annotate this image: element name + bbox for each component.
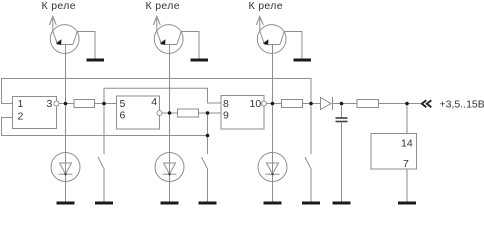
wire node3 feedback to gate1 pin 1 [2,79,312,104]
LED HL2 [155,153,184,182]
svg-text:7: 7 [403,158,409,170]
LED cathode junction 3 [271,173,273,175]
ground LED 1 [57,202,75,205]
wire collector 2 to common bar [181,32,199,59]
junction node 7 [309,102,313,106]
transistor VT1 [50,25,79,54]
wire collector 1 to common bar [77,32,95,59]
svg-text:10: 10 [250,98,262,110]
wire R3 to diode VD1 [303,103,321,105]
arrow to relay 3 [256,17,263,32]
gate DD1.2 pin labels [120,96,158,122]
svg-text:+3,5..15В: +3,5..15В [440,99,484,111]
junction node 4 [206,111,210,115]
junction node 3 [168,111,172,115]
wire collector 3 to common bar [284,32,302,59]
gate DD1.3 output bubble pin 10 [262,101,267,106]
wire node2 feedback to gate1 pin 2 [2,118,208,136]
junction node 5 [206,134,210,138]
junction node 2 [102,102,106,106]
capacitor C1 [336,118,348,122]
LED cathode junction 1 [64,173,66,175]
svg-text:4: 4 [151,96,157,108]
wire IC pin 7 to ground [406,169,408,202]
wire R2 to gate3 pin 9 [199,112,222,114]
common bar (chassis) 1 [87,59,105,62]
junction node 9 [405,102,409,106]
svg-text:1: 1 [18,98,24,110]
junction node 1 [64,102,68,106]
svg-text:К реле: К реле [146,0,180,12]
wire contact 3 to ground [310,168,312,202]
wire node1 to gate3 pin 8 [104,88,221,103]
wire supply node to IC pin 14 [406,104,408,134]
arrow to relay 1 [49,17,56,32]
wire contact 1 to ground [103,168,105,202]
wire base/anode vertical 3 [272,45,274,202]
diode VD1 [321,97,333,110]
ground contact 1 [95,202,113,205]
wire R4 to supply connector [379,103,421,105]
LED HL3 [258,153,287,182]
wire base/anode vertical 1 [65,45,67,202]
common bar (chassis) 2 [191,59,209,62]
gate DD1.3 body [221,96,264,130]
transistor VT2 [154,25,183,54]
relay contact K1 blade [98,157,104,168]
resistor R3 [282,100,303,108]
gate DD1.2 body [117,96,160,129]
junction node 6 [271,102,275,106]
relay contact K3 blade [305,157,311,168]
resistor R2 [178,109,199,117]
ground IC [398,202,416,205]
ground C1 [333,202,351,205]
resistor R1 [74,100,95,108]
IC power block DD1 [371,134,417,170]
junction node 8 [340,102,344,106]
LED HL1 [51,153,80,182]
wire R1 to gate2 pin 5 [95,103,117,105]
svg-text:6: 6 [120,110,126,122]
svg-text:3: 3 [47,98,53,110]
resistor R4 [357,100,379,108]
svg-text:8: 8 [223,98,229,110]
ground LED 2 [161,202,179,205]
wire C1 to ground [341,122,343,202]
svg-text:2: 2 [18,111,24,123]
ground contact 2 [199,202,217,205]
ground contact 3 [302,202,320,205]
svg-text:14: 14 [401,138,413,150]
wire gate2 output to R2 [162,112,178,114]
wire diode node to C1 [341,104,343,119]
svg-text:К реле: К реле [42,0,76,12]
svg-text:К реле: К реле [249,0,283,12]
svg-text:5: 5 [120,98,126,110]
wire contact 2 to ground [207,168,209,202]
common bar (chassis) 3 [294,59,312,62]
supply connector chevrons [422,100,432,107]
ground LED 3 [264,202,282,205]
gate DD1.3 pin labels [223,98,261,122]
wire VD1 to R4 [333,103,358,105]
gate DD1.2 output bubble pin 4 [157,111,162,116]
wire gate1 output to R1 [59,103,74,105]
wire base/anode vertical 2 [169,45,171,202]
wire node1 down to contact [103,104,105,155]
gate DD1.1 body [13,97,57,129]
gate DD1.1 output bubble pin 3 [54,101,59,106]
gate DD1.1 pin labels [18,98,53,123]
arrow to relay 2 [153,17,160,32]
relay contact K2 blade [202,157,208,168]
wire gate3 output to R3 [267,103,282,105]
wire node2 down to contact [207,113,209,154]
transistor VT3 [257,25,286,54]
IC pin labels 14 and 7 [401,138,413,171]
svg-text:9: 9 [223,110,229,122]
LED cathode junction 2 [168,173,170,175]
wire node3 down to contact [310,104,312,155]
